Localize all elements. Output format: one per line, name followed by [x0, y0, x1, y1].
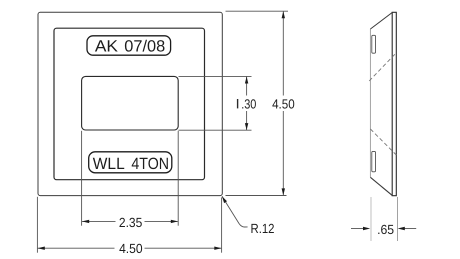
svg-text:AK07/08: AK07/08 — [95, 38, 165, 56]
svg-text:.65: .65 — [377, 222, 394, 237]
svg-text:WLL4TON: WLL4TON — [93, 155, 169, 173]
svg-text:4.50: 4.50 — [272, 96, 295, 111]
svg-text:R.12: R.12 — [251, 221, 275, 236]
svg-text:.30: .30 — [241, 96, 256, 111]
svg-text:2.35: 2.35 — [119, 215, 142, 230]
svg-text:4.50: 4.50 — [119, 241, 143, 256]
